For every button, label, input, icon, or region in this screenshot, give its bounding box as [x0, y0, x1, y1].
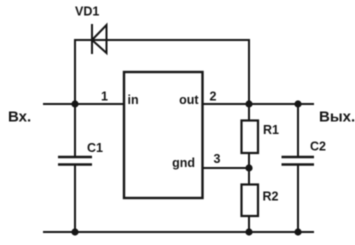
capacitor C1 — [58, 157, 92, 165]
wire gnd — [203, 167, 250, 169]
wire ground rail — [43, 231, 314, 233]
node rail C1 junction — [71, 228, 78, 235]
wire right vertical (diode to out) — [248, 39, 250, 104]
svg-text:1: 1 — [101, 90, 108, 104]
wire left vertical upper — [74, 39, 76, 157]
node gnd junction — [245, 164, 252, 171]
wire output — [203, 103, 315, 105]
node C2 junction top — [294, 100, 301, 107]
svg-text:Вх.: Вх. — [8, 109, 31, 126]
wire R1 top lead — [248, 104, 250, 121]
svg-text:2: 2 — [210, 90, 217, 104]
resistor R2 — [242, 185, 259, 217]
wire top (diode branch) — [74, 39, 250, 41]
wire R1 bottom lead — [248, 153, 250, 168]
svg-text:R1: R1 — [263, 123, 279, 137]
diode VD1 — [92, 24, 107, 54]
svg-text:in: in — [128, 93, 139, 107]
wire left vertical lower — [74, 165, 76, 233]
op-amp U1 regulator body — [124, 72, 203, 198]
wire input — [43, 103, 124, 105]
wire R2 bottom lead — [248, 216, 250, 233]
wire R2 top lead — [248, 168, 250, 185]
svg-text:out: out — [179, 93, 199, 107]
svg-text:C1: C1 — [87, 141, 103, 155]
svg-text:gnd: gnd — [172, 156, 195, 170]
svg-text:VD1: VD1 — [75, 5, 99, 19]
node rail R2 junction — [245, 228, 252, 235]
node out junction — [245, 100, 252, 107]
resistor R1 — [242, 121, 259, 154]
node input junction — [71, 100, 78, 107]
wire C2 bottom lead — [297, 165, 299, 233]
svg-text:C2: C2 — [310, 140, 326, 154]
svg-text:R2: R2 — [263, 189, 279, 203]
svg-text:3: 3 — [214, 152, 221, 166]
node rail C2 junction — [294, 228, 301, 235]
svg-text:Вых.: Вых. — [319, 109, 355, 126]
wire C2 top lead — [297, 104, 299, 157]
capacitor C2 — [282, 157, 315, 165]
